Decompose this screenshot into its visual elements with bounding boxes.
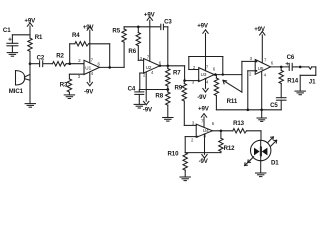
node (R9 top) (183, 79, 186, 82)
wire U3 output (214, 74, 242, 76)
capacitor C2 (40, 61, 53, 67)
wire U2 out to R9/U3 pin3 (185, 66, 199, 81)
resistor R7 (166, 66, 170, 90)
svg-text:-9V: -9V (143, 107, 153, 114)
svg-text:+9V: +9V (24, 18, 36, 25)
resistor R13 (233, 129, 261, 141)
capacitor C6 (286, 62, 296, 70)
resistor R5 (122, 27, 126, 68)
node (feedback joins output) (222, 73, 224, 75)
ground (rail) (257, 110, 266, 122)
svg-text:C3: C3 (164, 19, 172, 26)
svg-text:C5: C5 (270, 102, 278, 109)
node (R6 top on rail) (137, 26, 140, 29)
supply +9V (U4) (201, 114, 206, 128)
svg-text:-9V: -9V (84, 89, 94, 96)
resistor R12 (185, 131, 223, 153)
wire U1 output (100, 66, 125, 68)
svg-text:2: 2 (78, 58, 81, 63)
wire U2 output (160, 65, 185, 67)
supply +9V (C1/R1 node) (27, 23, 32, 35)
svg-text:6: 6 (159, 61, 162, 66)
svg-text:C4: C4 (128, 86, 136, 93)
rail +9V (R5/R6/C3) (124, 26, 160, 28)
svg-text:6: 6 (212, 121, 215, 126)
svg-text:7: 7 (264, 58, 267, 63)
svg-text:-9V: -9V (199, 158, 209, 165)
wire U5 output (271, 66, 290, 68)
pin marks U4 (196, 134, 205, 138)
svg-text:2: 2 (249, 71, 252, 76)
svg-text:U5: U5 (258, 66, 264, 71)
potentiometer R11 (214, 75, 242, 110)
wire U4 output (212, 130, 232, 132)
svg-text:R11: R11 (227, 98, 238, 105)
node (U4 out / R12) (220, 130, 223, 133)
svg-text:+9V: +9V (83, 24, 95, 31)
svg-text:R13: R13 (233, 120, 245, 127)
svg-text:4: 4 (206, 80, 209, 85)
op-amp U1 (84, 27, 100, 86)
svg-text:4: 4 (151, 70, 154, 75)
pin marks U3 (198, 78, 207, 82)
capacitor C3 (161, 24, 168, 66)
node (R1/C2/MIC1 junction) (29, 62, 32, 65)
op-amp U4 (196, 124, 212, 158)
node (U1 out / feedback) (108, 66, 111, 69)
ground (R10) (180, 177, 190, 181)
svg-text:3: 3 (192, 121, 195, 126)
capacitor C5 (276, 98, 286, 110)
resistor R6 (136, 27, 144, 61)
pin numbers U5 (249, 56, 274, 77)
node (U2 output pin) (159, 65, 161, 67)
pin numbers U3 (192, 64, 216, 84)
svg-text:R9: R9 (175, 84, 183, 91)
wire U2 pin2 to C4/R8 (140, 73, 168, 90)
op-amp U2 (144, 59, 160, 105)
node (pin2 drop on rail) (247, 109, 250, 112)
resistor R3 (67, 74, 71, 94)
node (R2/R4 tap, U1 pin2) (68, 62, 71, 65)
svg-text:C1: C1 (3, 27, 11, 34)
resistor R10 (183, 153, 187, 177)
svg-text:R7: R7 (173, 70, 181, 77)
svg-text:R8: R8 (155, 92, 163, 99)
LED D1 (245, 137, 277, 166)
svg-text:+9V: +9V (197, 22, 209, 29)
wire U5 pin2 (248, 71, 255, 110)
svg-text:-9V: -9V (197, 94, 207, 101)
svg-text:R14: R14 (287, 78, 299, 85)
svg-text:+9V: +9V (198, 105, 210, 112)
wire node to C1 (12, 34, 30, 36)
wire D1 to ground (260, 161, 262, 173)
resistor R4 (feedback U1) (70, 42, 110, 68)
rail ground (R11/C5) (216, 109, 281, 111)
node (pin4 / ground on rail) (260, 109, 263, 112)
svg-text:D1: D1 (271, 160, 279, 167)
svg-text:R1: R1 (35, 34, 43, 41)
wire junction to C2 (30, 63, 39, 65)
pin numbers U1 (78, 57, 101, 79)
svg-text:R12: R12 (224, 145, 236, 152)
node (U3 out / R11 top) (214, 73, 217, 76)
pin numbers U2 (140, 54, 162, 77)
svg-text:R3: R3 (60, 81, 68, 88)
svg-text:4: 4 (204, 134, 207, 139)
svg-text:7: 7 (206, 64, 209, 69)
svg-text:6: 6 (213, 66, 216, 71)
resistor R1 (28, 35, 32, 64)
node (U5 out / R14) (280, 66, 283, 69)
svg-text:U3: U3 (201, 72, 207, 77)
ground (C4) (134, 104, 144, 108)
svg-text:2: 2 (143, 73, 146, 78)
svg-text:C2: C2 (37, 54, 45, 61)
wire U3 out to U5 pin3 (242, 61, 255, 92)
pin numbers U4 (191, 119, 215, 143)
svg-text:U4: U4 (203, 128, 209, 133)
svg-text:4: 4 (91, 71, 94, 76)
ground (D1) (256, 173, 266, 177)
pin marks U5 (256, 61, 258, 72)
resistor R9 (182, 81, 196, 126)
jack J1 (296, 67, 316, 91)
node (R7/R8/pin2 junction) (166, 88, 169, 91)
ground (J1) (295, 91, 305, 95)
svg-text:3: 3 (250, 56, 253, 61)
svg-text:4: 4 (264, 72, 267, 77)
svg-text:6: 6 (98, 61, 101, 66)
supply +9V (rail) (147, 17, 152, 62)
microphone MIC1 (16, 64, 31, 104)
capacitor C1 (7, 35, 18, 53)
svg-text:6: 6 (271, 60, 274, 65)
svg-text:U1: U1 (85, 66, 91, 71)
ground (C1) (7, 53, 17, 57)
svg-text:C6: C6 (287, 54, 295, 61)
capacitor C4 (135, 90, 144, 105)
svg-text:R2: R2 (56, 53, 64, 60)
svg-text:+9V: +9V (144, 12, 156, 19)
wire U1 pin3 (69, 73, 84, 75)
node (U2 out / C3 / R7) (167, 65, 170, 68)
ground (R3) (64, 95, 74, 99)
svg-text:R5: R5 (112, 27, 120, 34)
wire U4 pin2 / R10 top (185, 137, 196, 153)
svg-text:R6: R6 (128, 48, 136, 55)
svg-text:2: 2 (191, 138, 194, 143)
ground (MIC1) (25, 104, 35, 108)
wire U3 feedback loop (189, 57, 223, 75)
svg-text:J1: J1 (309, 79, 316, 86)
svg-text:MIC1: MIC1 (9, 88, 24, 95)
ground (R8) (163, 118, 173, 122)
resistor R14 (279, 67, 283, 98)
op-amp U3 (199, 30, 215, 92)
resistor R2 (53, 62, 85, 67)
resistor R8 (166, 90, 170, 118)
op-amp U5 (255, 32, 270, 110)
svg-text:R10: R10 (168, 151, 180, 158)
svg-text:7: 7 (91, 57, 94, 62)
node (jack tip) (299, 66, 302, 69)
svg-text:+9V: +9V (254, 26, 266, 33)
svg-text:R4: R4 (72, 32, 80, 39)
